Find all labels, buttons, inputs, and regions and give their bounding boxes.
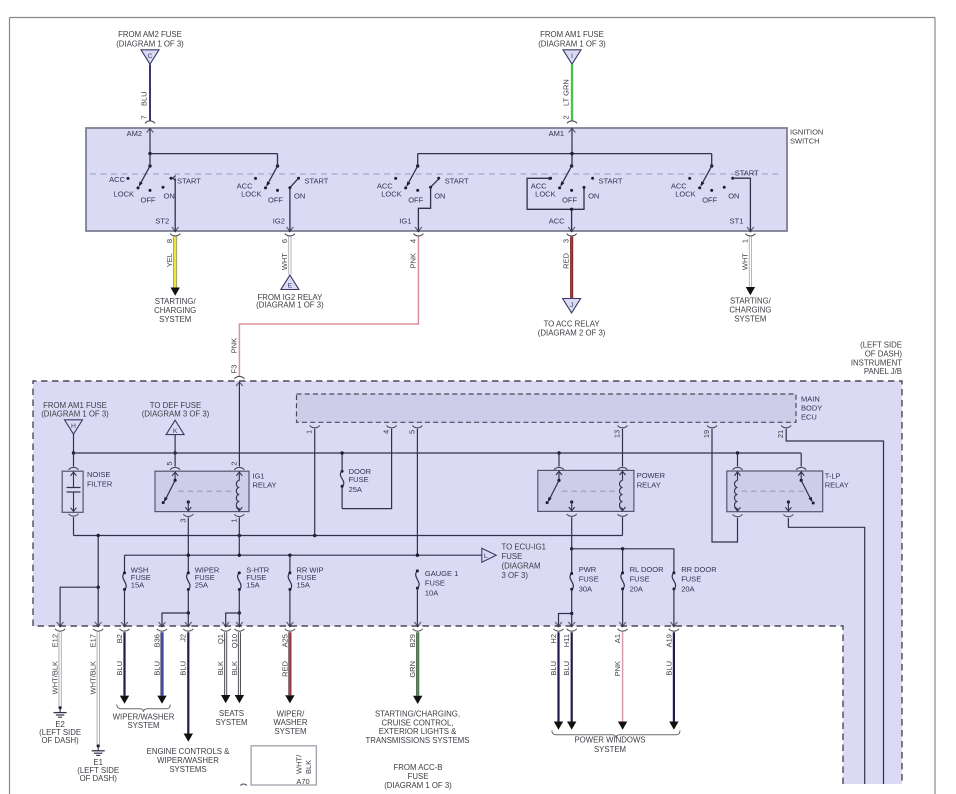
svg-text:(LEFT SIDE: (LEFT SIDE <box>860 341 902 350</box>
svg-text:LOCK: LOCK <box>535 190 555 199</box>
svg-text:2: 2 <box>229 461 238 465</box>
svg-text:START: START <box>599 176 623 185</box>
svg-text:ENGINE CONTROLS &: ENGINE CONTROLS & <box>147 747 231 756</box>
svg-text:SYSTEM: SYSTEM <box>215 718 247 727</box>
svg-text:7: 7 <box>140 115 149 119</box>
svg-text:FUSE: FUSE <box>579 574 599 583</box>
svg-text:IG2: IG2 <box>273 216 285 225</box>
svg-text:1: 1 <box>305 430 314 434</box>
svg-text:FROM ACC-B: FROM ACC-B <box>394 763 443 772</box>
svg-text:25A: 25A <box>349 485 362 494</box>
svg-text:CHARGING: CHARGING <box>729 305 771 314</box>
svg-text:(DIAGRAM 1 OF 3): (DIAGRAM 1 OF 3) <box>384 781 452 790</box>
svg-text:SYSTEM: SYSTEM <box>127 721 159 730</box>
svg-text:WHT: WHT <box>280 253 289 270</box>
svg-text:K: K <box>173 428 178 435</box>
svg-text:POWER WINDOWS: POWER WINDOWS <box>574 736 645 745</box>
svg-text:ST2: ST2 <box>155 216 169 225</box>
svg-text:L: L <box>484 553 488 560</box>
svg-text:F3: F3 <box>229 365 238 374</box>
svg-text:AM2: AM2 <box>127 129 142 138</box>
svg-text:ON: ON <box>728 191 739 200</box>
svg-text:PWR: PWR <box>579 565 597 574</box>
svg-text:OF DASH): OF DASH) <box>865 349 903 358</box>
svg-text:1: 1 <box>229 519 238 523</box>
svg-text:A25: A25 <box>280 634 289 647</box>
svg-text:WASHER: WASHER <box>274 718 308 727</box>
svg-text:BLU: BLU <box>140 91 149 106</box>
svg-text:E17: E17 <box>89 634 98 647</box>
svg-text:OFF: OFF <box>702 195 717 204</box>
svg-text:ON: ON <box>588 191 599 200</box>
svg-text:POWER: POWER <box>637 471 666 480</box>
svg-text:TO ACC RELAY: TO ACC RELAY <box>544 320 601 329</box>
svg-text:Q10: Q10 <box>230 634 239 648</box>
svg-text:3: 3 <box>178 519 187 523</box>
svg-text:WHT/: WHT/ <box>295 754 304 774</box>
svg-text:ST1: ST1 <box>730 216 744 225</box>
svg-text:SYSTEM: SYSTEM <box>274 727 306 736</box>
svg-text:START: START <box>735 168 759 177</box>
svg-text:WIPER/WASHER: WIPER/WASHER <box>157 756 219 765</box>
svg-text:BLU: BLU <box>664 661 673 676</box>
svg-text:ECU: ECU <box>801 412 817 421</box>
svg-text:20A: 20A <box>630 585 643 594</box>
svg-text:OF DASH): OF DASH) <box>80 774 118 783</box>
svg-text:H11: H11 <box>562 634 571 647</box>
svg-text:T-LP: T-LP <box>825 471 841 480</box>
svg-text:BLK: BLK <box>230 661 239 675</box>
svg-text:20A: 20A <box>681 585 694 594</box>
svg-text:WHT/BLK: WHT/BLK <box>89 661 98 694</box>
svg-text:FILTER: FILTER <box>87 479 113 488</box>
svg-text:B36: B36 <box>152 634 161 647</box>
svg-text:(DIAGRAM 1 OF 3): (DIAGRAM 1 OF 3) <box>116 40 184 49</box>
svg-text:E12: E12 <box>51 634 60 647</box>
svg-text:RED: RED <box>280 660 289 676</box>
svg-text:WIPER/WASHER: WIPER/WASHER <box>113 712 175 721</box>
svg-text:FROM AM2 FUSE: FROM AM2 FUSE <box>118 30 182 39</box>
svg-text:ACC: ACC <box>549 216 565 225</box>
svg-text:Q1: Q1 <box>216 634 225 644</box>
svg-text:SWITCH: SWITCH <box>790 137 820 146</box>
svg-text:CHARGING: CHARGING <box>154 306 196 315</box>
svg-text:B2: B2 <box>115 634 124 643</box>
svg-text:6: 6 <box>280 239 289 243</box>
svg-text:10A: 10A <box>425 589 438 598</box>
svg-text:A19: A19 <box>664 634 673 647</box>
svg-text:IG1: IG1 <box>253 471 265 480</box>
svg-text:15A: 15A <box>131 581 144 590</box>
svg-text:(DIAGRAM 2 OF 3): (DIAGRAM 2 OF 3) <box>538 328 606 337</box>
svg-text:13: 13 <box>613 430 622 438</box>
svg-text:PNK: PNK <box>408 253 417 268</box>
svg-text:25A: 25A <box>195 581 208 590</box>
svg-text:OF DASH): OF DASH) <box>41 736 79 745</box>
svg-text:SYSTEM: SYSTEM <box>734 314 766 323</box>
svg-text:LOCK: LOCK <box>241 190 261 199</box>
svg-text:5: 5 <box>165 461 174 465</box>
svg-text:NOISE: NOISE <box>87 470 110 479</box>
svg-text:BLK: BLK <box>304 760 313 774</box>
svg-text:LT GRN: LT GRN <box>562 79 571 106</box>
svg-text:A70: A70 <box>296 777 309 786</box>
svg-text:START: START <box>445 176 469 185</box>
svg-text:PANEL J/B: PANEL J/B <box>864 367 902 376</box>
svg-text:RL DOOR: RL DOOR <box>630 565 664 574</box>
svg-text:YEL: YEL <box>165 253 174 267</box>
svg-text:H2: H2 <box>549 634 558 644</box>
svg-text:FUSE: FUSE <box>425 578 445 587</box>
svg-text:SYSTEMS: SYSTEMS <box>169 765 206 774</box>
svg-text:MAIN: MAIN <box>801 395 820 404</box>
svg-text:I: I <box>571 53 573 60</box>
svg-text:4: 4 <box>408 239 417 243</box>
svg-text:PNK: PNK <box>613 661 622 676</box>
svg-text:FUSE: FUSE <box>502 552 523 561</box>
svg-text:EXTERIOR LIGHTS &: EXTERIOR LIGHTS & <box>379 727 457 736</box>
svg-text:SYSTEM: SYSTEM <box>594 745 626 754</box>
svg-text:TRANSMISSIONS SYSTEMS: TRANSMISSIONS SYSTEMS <box>366 736 470 745</box>
svg-text:C: C <box>148 53 153 60</box>
svg-text:FUSE: FUSE <box>630 574 650 583</box>
svg-text:ON: ON <box>294 191 305 200</box>
svg-text:IGNITION: IGNITION <box>790 128 823 137</box>
svg-text:BLK: BLK <box>216 661 225 675</box>
svg-text:15A: 15A <box>246 581 259 590</box>
svg-text:4: 4 <box>382 430 391 434</box>
svg-text:WHT: WHT <box>740 253 749 270</box>
svg-text:1: 1 <box>740 239 749 243</box>
svg-text:IG1: IG1 <box>399 216 411 225</box>
svg-text:FROM AM1 FUSE: FROM AM1 FUSE <box>540 30 604 39</box>
svg-text:CRUISE CONTROL,: CRUISE CONTROL, <box>382 718 454 727</box>
svg-text:LOCK: LOCK <box>381 190 401 199</box>
svg-text:START: START <box>177 176 201 185</box>
svg-text:PNK: PNK <box>229 338 238 353</box>
svg-text:INSTRUMENT: INSTRUMENT <box>851 358 902 367</box>
svg-text:LOCK: LOCK <box>114 190 134 199</box>
svg-text:B29: B29 <box>408 634 417 647</box>
svg-text:(DIAGRAM 3 OF 3): (DIAGRAM 3 OF 3) <box>142 410 210 419</box>
svg-text:WIPER/: WIPER/ <box>277 709 306 718</box>
svg-text:GRN: GRN <box>408 661 417 678</box>
svg-text:RELAY: RELAY <box>253 481 277 490</box>
svg-text:J: J <box>570 302 573 309</box>
svg-text:BLU: BLU <box>115 661 124 676</box>
svg-text:RELAY: RELAY <box>825 481 849 490</box>
svg-text:LOCK: LOCK <box>675 190 695 199</box>
svg-text:BODY: BODY <box>801 403 822 412</box>
svg-text:RR DOOR: RR DOOR <box>681 565 717 574</box>
svg-text:TO ECU-IG1: TO ECU-IG1 <box>502 543 546 552</box>
svg-text:OFF: OFF <box>141 195 156 204</box>
svg-text:FUSE: FUSE <box>408 772 429 781</box>
svg-text:(DIAGRAM 1 OF 3): (DIAGRAM 1 OF 3) <box>41 410 109 419</box>
svg-text:8: 8 <box>165 239 174 243</box>
svg-text:SEATS: SEATS <box>219 709 244 718</box>
svg-text:19: 19 <box>702 430 711 438</box>
svg-text:START: START <box>305 176 329 185</box>
svg-text:ACC: ACC <box>109 175 125 184</box>
svg-text:(DIAGRAM 1 OF 3): (DIAGRAM 1 OF 3) <box>538 40 606 49</box>
svg-text:2: 2 <box>562 115 571 119</box>
svg-text:3: 3 <box>562 239 571 243</box>
svg-text:BLU: BLU <box>152 661 161 676</box>
svg-text:BLU: BLU <box>549 661 558 676</box>
svg-text:BLU: BLU <box>562 661 571 676</box>
svg-text:J2: J2 <box>179 634 188 642</box>
svg-text:5: 5 <box>407 430 416 434</box>
svg-text:BLU: BLU <box>179 661 188 676</box>
svg-text:FUSE: FUSE <box>681 574 701 583</box>
svg-text:RELAY: RELAY <box>637 480 661 489</box>
svg-text:E: E <box>288 283 293 290</box>
svg-text:WHT/BLK: WHT/BLK <box>51 661 60 694</box>
svg-text:3 OF 3): 3 OF 3) <box>502 571 529 580</box>
svg-text:OFF: OFF <box>268 195 283 204</box>
svg-text:ON: ON <box>434 191 445 200</box>
svg-text:A1: A1 <box>613 634 622 643</box>
svg-text:H: H <box>71 423 76 430</box>
svg-text:OFF: OFF <box>408 195 423 204</box>
svg-text:(DIAGRAM 1 OF 3): (DIAGRAM 1 OF 3) <box>256 301 324 310</box>
svg-text:30A: 30A <box>579 585 592 594</box>
svg-text:RED: RED <box>562 252 571 268</box>
svg-text:OFF: OFF <box>562 195 577 204</box>
svg-text:SYSTEM: SYSTEM <box>159 315 191 324</box>
svg-text:FUSE: FUSE <box>349 475 369 484</box>
svg-text:(DIAGRAM: (DIAGRAM <box>502 562 541 571</box>
svg-text:21: 21 <box>776 430 785 438</box>
svg-text:STARTING/CHARGING,: STARTING/CHARGING, <box>375 709 460 718</box>
svg-text:GAUGE 1: GAUGE 1 <box>425 569 458 578</box>
svg-text:STARTING/: STARTING/ <box>155 297 197 306</box>
svg-text:ON: ON <box>164 191 175 200</box>
svg-text:STARTING/: STARTING/ <box>730 297 772 306</box>
svg-text:15A: 15A <box>297 581 310 590</box>
svg-text:AM1: AM1 <box>549 129 564 138</box>
